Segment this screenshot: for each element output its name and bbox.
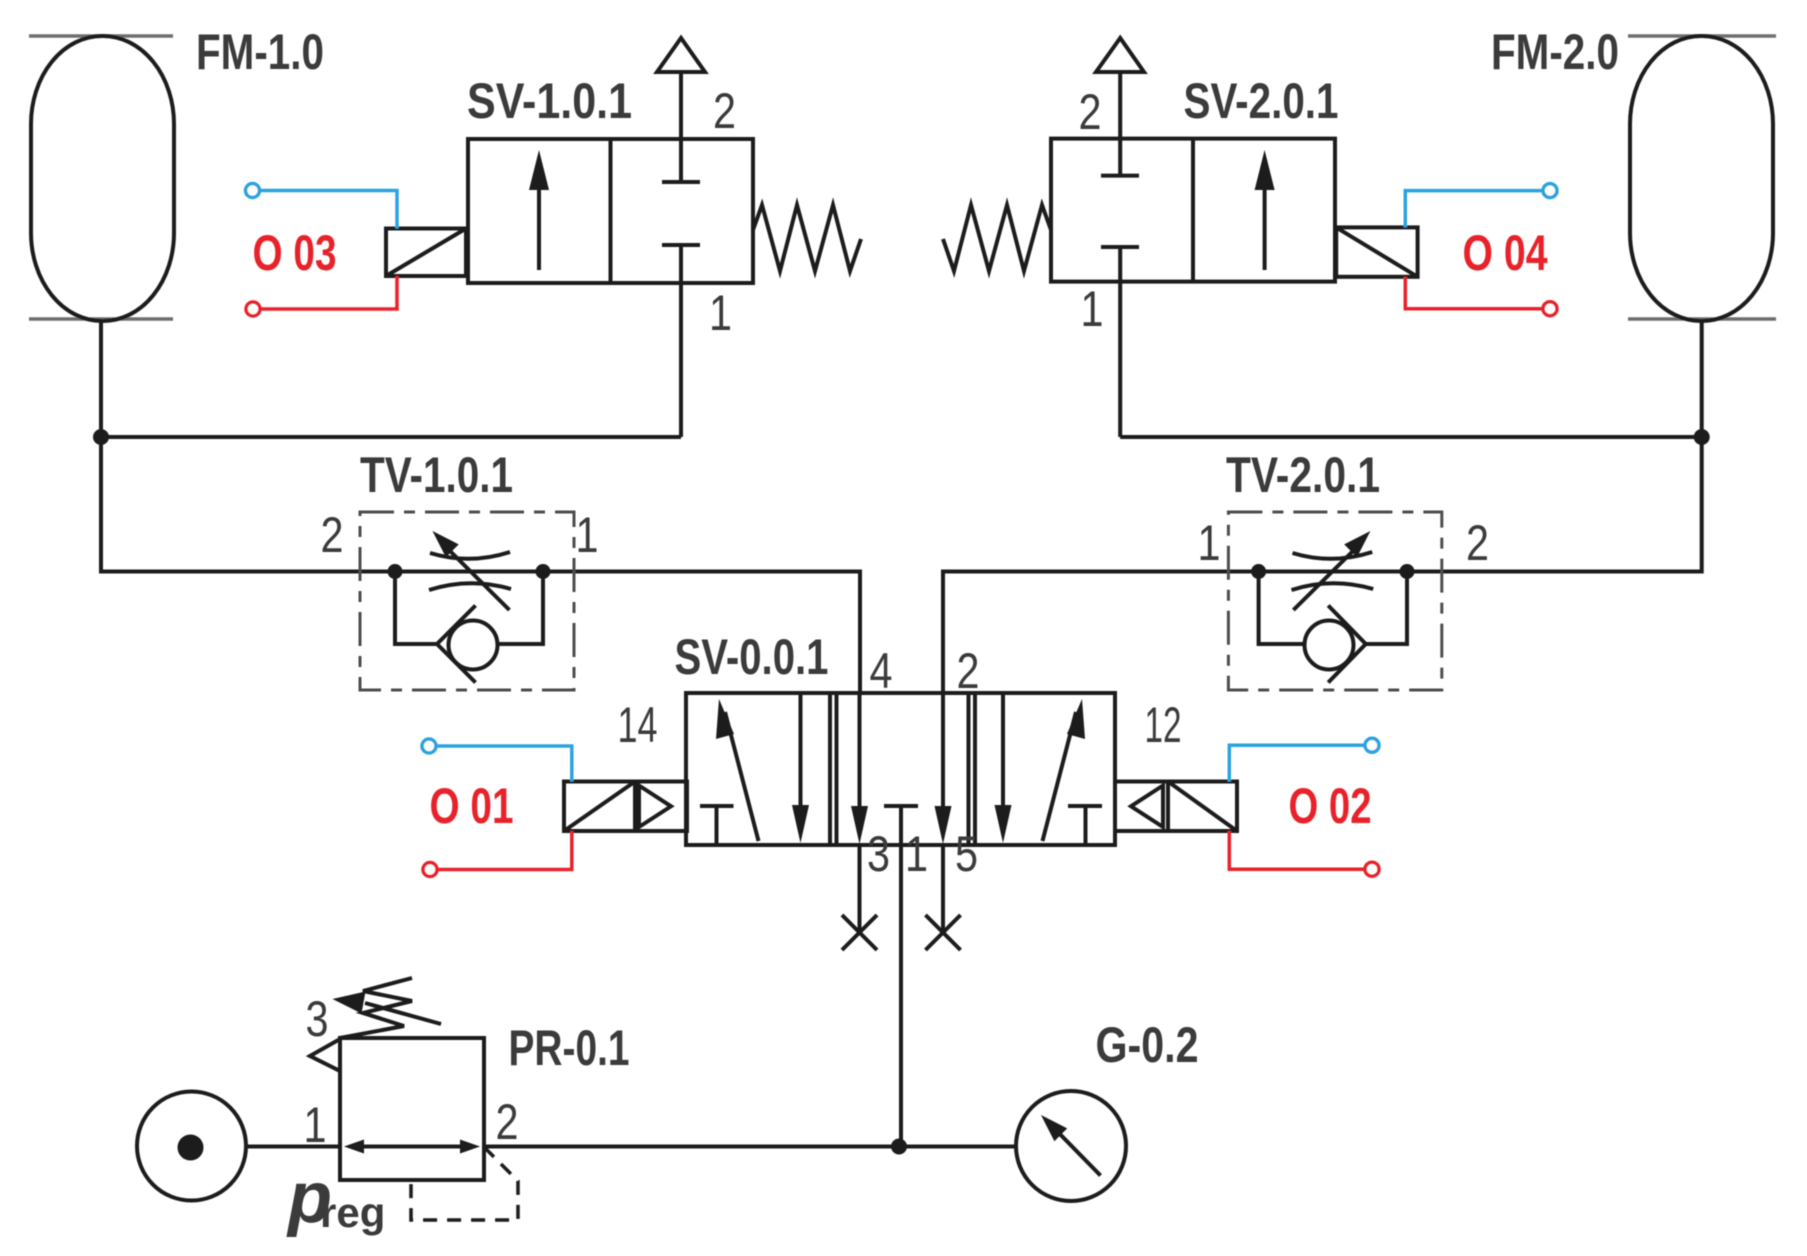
svg-text:2: 2 [1466, 515, 1489, 571]
svg-text:PR-0.1: PR-0.1 [509, 1020, 630, 1076]
svg-text:O 01: O 01 [430, 778, 514, 834]
svg-text:1: 1 [905, 826, 928, 882]
svg-text:TV-1.0.1: TV-1.0.1 [360, 447, 513, 503]
svg-text:5: 5 [955, 826, 978, 882]
svg-text:12: 12 [1145, 697, 1182, 753]
svg-text:3: 3 [867, 826, 890, 882]
svg-text:1: 1 [304, 1097, 327, 1153]
svg-text:2: 2 [1079, 84, 1102, 140]
svg-text:4: 4 [870, 643, 893, 699]
svg-text:2: 2 [321, 507, 344, 563]
svg-text:SV-1.0.1: SV-1.0.1 [467, 73, 632, 129]
svg-text:SV-0.0.1: SV-0.0.1 [675, 629, 829, 685]
svg-text:2: 2 [713, 83, 736, 139]
svg-text:3: 3 [306, 991, 329, 1047]
svg-text:FM-1.0: FM-1.0 [196, 24, 324, 80]
svg-text:FM-2.0: FM-2.0 [1491, 24, 1619, 80]
svg-text:1: 1 [576, 507, 599, 563]
svg-text:O 03: O 03 [253, 225, 337, 281]
svg-text:14: 14 [618, 697, 658, 753]
svg-text:reg: reg [320, 1189, 385, 1236]
svg-text:TV-2.0.1: TV-2.0.1 [1226, 447, 1380, 503]
svg-text:2: 2 [496, 1094, 519, 1150]
svg-text:SV-2.0.1: SV-2.0.1 [1184, 73, 1339, 129]
svg-text:2: 2 [957, 643, 980, 699]
svg-text:1: 1 [1081, 281, 1104, 337]
svg-text:O 04: O 04 [1463, 225, 1548, 281]
svg-text:1: 1 [1198, 515, 1221, 571]
svg-text:G-0.2: G-0.2 [1096, 1017, 1199, 1073]
svg-text:O 02: O 02 [1289, 778, 1372, 834]
svg-text:1: 1 [709, 285, 732, 341]
